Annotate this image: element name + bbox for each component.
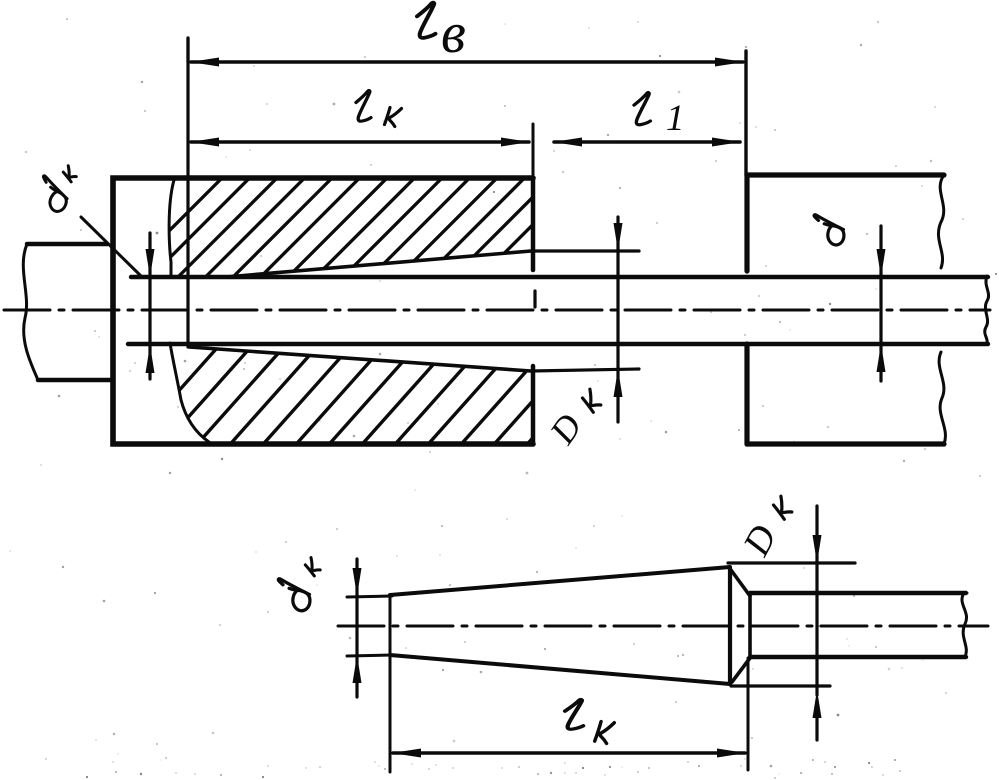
thin rod wavy break right (985, 276, 989, 344)
cone top taper (bottom view) (390, 567, 730, 595)
right block bottom edge (747, 441, 944, 446)
cone top extension line (531, 249, 639, 252)
cone top taper line (226, 251, 531, 277)
arrow DK up (614, 369, 623, 397)
dimension lK extension right (532, 124, 535, 270)
hatching upper die section (115, 172, 641, 285)
dimension line lK top (191, 140, 529, 144)
arrow dK down (146, 249, 155, 277)
label lK (bottom view) (565, 700, 614, 744)
arrow DK bottom view down (813, 535, 822, 563)
DK lower tail (815, 700, 818, 740)
arrow DK down (614, 223, 623, 251)
arrow lK left (190, 138, 219, 147)
arrow l1 right (712, 138, 741, 147)
arrow dK up (146, 345, 155, 373)
label l1 (634, 93, 685, 139)
rod top edge (bottom view) (750, 591, 966, 595)
arrow dK bottom view up (353, 655, 362, 683)
svg-text:D: D (735, 518, 785, 563)
cast boundary wavy line (169, 180, 209, 442)
die block right edge upper (531, 178, 536, 270)
DK bottom extension (bottom view) (731, 684, 830, 687)
leader line dK (81, 217, 142, 277)
arrow lK right (501, 138, 530, 147)
right block top edge (747, 172, 944, 177)
label lK top (356, 91, 402, 127)
arrow DK bottom view up (813, 690, 822, 718)
dimension dK small (top view) (148, 233, 151, 379)
cone bottom taper (bottom view) (390, 655, 730, 684)
die block right edge lower (531, 366, 536, 444)
cone bottom extension line (531, 369, 639, 371)
cone base chamfer top (731, 570, 750, 596)
centerline bottom view (338, 625, 988, 628)
arrow lB right (715, 58, 744, 67)
centerline tick (533, 291, 536, 307)
arrow lB left (190, 58, 219, 67)
dimension line lK bottom (393, 751, 745, 755)
label lB (417, 2, 466, 65)
dimension dK (bottom view) (355, 559, 358, 697)
centerline top view (4, 309, 990, 312)
label DK (top view, rotated) (541, 407, 589, 452)
dimension lB extension left (186, 38, 189, 62)
svg-text:1: 1 (666, 98, 685, 139)
cone base face (728, 568, 732, 684)
die block outline (113, 178, 533, 444)
cone top extension small end (347, 596, 392, 597)
left rod top edge (27, 242, 107, 247)
cone bottom extension small end (347, 655, 392, 656)
label d (rotated) (808, 215, 847, 247)
cone bottom taper line (189, 347, 531, 371)
svg-text:в: в (441, 2, 466, 65)
DK top extension (bottom view) (728, 561, 855, 564)
right block wavy edge (938, 175, 945, 444)
thin rod bottom edge (128, 342, 988, 346)
right block left edge upper (744, 175, 749, 271)
dimension line lB (191, 60, 743, 64)
dimension d (right) (879, 226, 882, 381)
rod bottom edge (bottom view) (750, 655, 966, 659)
arrow d up (877, 344, 886, 372)
inner vertical line x=188 (186, 38, 189, 347)
dimension DK (top view) (616, 217, 619, 422)
lK right extension (bottom view) (747, 658, 750, 770)
label dK (bottom view, rotated) (272, 557, 323, 612)
hatching lower die section (126, 338, 622, 450)
dimension DK (bottom view) (815, 506, 818, 695)
dimension lB extension right (744, 51, 747, 175)
left rod wavy break (23, 244, 38, 380)
arrow lK bottom left (392, 749, 421, 758)
arrow d down (877, 249, 886, 277)
rod wavy break (bottom view) (962, 593, 967, 657)
rod shoulder edge (748, 596, 752, 658)
label DK (bottom view, rotated) (735, 518, 785, 563)
arrow l1 left (553, 138, 582, 147)
cone small end / lK extension left (389, 596, 392, 772)
cone base chamfer bottom (732, 658, 750, 682)
arrow lK bottom right (717, 749, 746, 758)
svg-text:D: D (541, 407, 589, 452)
left rod bottom edge (38, 378, 110, 383)
label dK (top view, rotated) (31, 165, 79, 214)
dimension line l1 (554, 140, 740, 144)
arrow dK bottom view down (353, 568, 362, 596)
right block left edge lower (744, 344, 749, 444)
thin rod top edge (131, 275, 988, 279)
